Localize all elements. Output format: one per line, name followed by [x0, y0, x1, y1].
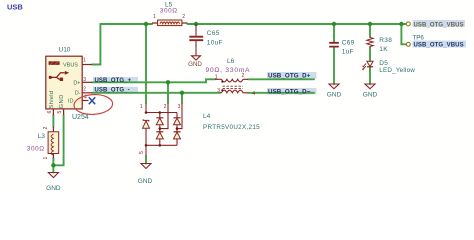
- svg-text:TP6: TP6: [413, 34, 425, 41]
- svg-text:C69: C69: [342, 40, 355, 47]
- junction rail/R38: [368, 22, 372, 26]
- svg-text:U10: U10: [59, 47, 71, 54]
- svg-text:1uF: 1uF: [342, 49, 354, 56]
- svg-text:GND: GND: [59, 94, 65, 108]
- connector U10: [46, 47, 92, 122]
- svg-text:U254: U254: [72, 114, 89, 121]
- svg-text:2: 2: [43, 127, 49, 130]
- LED D5: [362, 60, 415, 74]
- wire R38 drop from rail: [369, 24, 371, 37]
- svg-text:LED_Yellow: LED_Yellow: [379, 67, 415, 74]
- highlight box net USB_OTG_VBUS top: [413, 20, 466, 27]
- svg-text:R38: R38: [379, 37, 392, 44]
- svg-text:300Ω: 300Ω: [160, 8, 178, 15]
- pin names: [49, 62, 81, 108]
- gnd under C69: [327, 84, 342, 98]
- svg-text:2: 2: [182, 14, 185, 20]
- junction rail/TP6: [399, 22, 403, 26]
- svg-text:5: 5: [57, 111, 63, 114]
- bottom rail: [146, 144, 177, 146]
- wire D- line: [92, 92, 220, 94]
- svg-text:3: 3: [178, 104, 181, 110]
- wire L6 out D+: [248, 78, 314, 80]
- svg-text:300Ω: 300Ω: [27, 146, 45, 153]
- gnd under C65: [188, 56, 202, 68]
- wire C65 junction marker segment: [195, 23, 197, 25]
- ferrite bead L5: [152, 1, 188, 25]
- wire R38 to LED: [369, 48, 371, 62]
- wire LED to gnd: [369, 68, 371, 85]
- wire rail L5 to C65 junction and right: [188, 23, 407, 25]
- middle column mids: [159, 125, 161, 132]
- svg-text:VBUS: VBUS: [63, 62, 78, 68]
- wire L6 out D-: [248, 92, 314, 94]
- diode right bottom: [174, 131, 181, 133]
- wire L3 bottom to gnd junction: [52, 158, 54, 173]
- test point TP6: [406, 42, 410, 46]
- annotation ellipse: [74, 94, 114, 116]
- highlight box net USB_OTG_VBUS tp6: [413, 41, 467, 48]
- diode mid top: [156, 117, 163, 119]
- shield hatch rect: [49, 61, 60, 65]
- unconnected flag circle top right: [406, 22, 410, 26]
- svg-text:4: 4: [252, 91, 255, 97]
- svg-text:6: 6: [47, 111, 53, 114]
- svg-text:USB_OTG_+: USB_OTG_+: [95, 78, 132, 84]
- svg-text:2: 2: [242, 73, 245, 79]
- svg-text:D+: D+: [73, 80, 80, 86]
- gnd under TVS: [138, 164, 153, 186]
- junction rail/C69: [332, 22, 336, 26]
- right column mids: [176, 125, 178, 132]
- svg-text:USB: USB: [7, 3, 23, 12]
- junction rail/TVS pin1: [144, 22, 148, 26]
- ferrite bead L3: [27, 127, 59, 160]
- svg-text:3: 3: [83, 77, 86, 83]
- wire shield pin down to L3: [52, 115, 54, 127]
- svg-text:GND: GND: [327, 91, 342, 98]
- highlight box net USB_OTG_D-: [267, 88, 317, 95]
- svg-text:USB_OTG_VBUS: USB_OTG_VBUS: [414, 43, 464, 49]
- pin numbers: [47, 58, 87, 114]
- junction rail/C65: [194, 22, 198, 26]
- svg-text:10uF: 10uF: [207, 39, 223, 46]
- no-connect X on ID pin: [89, 97, 95, 104]
- gnd under L3: [46, 173, 61, 193]
- svg-text:USB_OTG_D−: USB_OTG_D−: [268, 89, 311, 96]
- zener D: [143, 119, 149, 121]
- capacitor C69: [329, 40, 354, 56]
- svg-text:GND: GND: [188, 61, 202, 68]
- junction D+/TVS pin2: [166, 80, 170, 84]
- svg-text:2: 2: [164, 104, 167, 110]
- svg-text:1: 1: [215, 75, 218, 81]
- wire C69 to gnd: [333, 48, 335, 85]
- svg-text:Shield: Shield: [49, 91, 55, 109]
- wire VBUS pin to rail riser: [92, 24, 100, 65]
- svg-text:GND: GND: [363, 91, 378, 98]
- wire TVS pin3 drop: [181, 93, 183, 104]
- svg-text:ID: ID: [68, 99, 74, 105]
- svg-text:1K: 1K: [379, 46, 388, 53]
- svg-text:L3: L3: [38, 133, 46, 140]
- diode right top: [174, 117, 181, 119]
- svg-text:PRTR5V0U2X,215: PRTR5V0U2X,215: [203, 124, 260, 131]
- TVS array L4: [139, 104, 260, 157]
- junction D-/TVS pin3: [180, 91, 184, 95]
- svg-text:1: 1: [153, 14, 156, 20]
- pin stubs: [146, 104, 182, 157]
- diode mid bottom: [156, 131, 163, 133]
- junction L3/gnd: [51, 163, 55, 167]
- svg-text:GND: GND: [138, 178, 153, 185]
- pin stubs: [53, 65, 92, 116]
- svg-text:USB_OTG_-: USB_OTG_-: [95, 88, 130, 94]
- wire top VBUS rail: [100, 23, 152, 25]
- svg-text:2: 2: [83, 87, 86, 93]
- wire D+ line: [92, 79, 215, 82]
- svg-text:L6: L6: [227, 58, 235, 65]
- svg-text:USB_OTG_D+: USB_OTG_D+: [268, 73, 311, 80]
- capacitor C65: [189, 24, 223, 56]
- wire TVS pin2 drop: [167, 82, 169, 103]
- wire U10 gnd pin down and left: [53, 115, 63, 165]
- svg-text:L4: L4: [203, 113, 211, 120]
- svg-text:1: 1: [43, 157, 49, 160]
- svg-text:GND: GND: [46, 185, 61, 192]
- svg-text:1: 1: [140, 104, 143, 110]
- pin numbers: [139, 104, 180, 154]
- svg-text:5: 5: [139, 151, 145, 154]
- svg-text:C65: C65: [207, 30, 220, 37]
- highlight box net USB_OTG_-: [93, 87, 138, 93]
- resistor R38: [367, 37, 392, 53]
- wire TVS pin1 drop: [145, 24, 147, 104]
- svg-text:D-: D-: [75, 90, 81, 96]
- wire TVS gnd stem: [145, 156, 147, 164]
- internal junction dots: [145, 111, 179, 146]
- common mode choke L6: [206, 58, 256, 97]
- usb icon: [49, 73, 65, 80]
- gnd under D5: [363, 84, 378, 98]
- svg-text:1: 1: [83, 58, 86, 64]
- highlight box net USB_OTG_+: [93, 77, 138, 83]
- svg-text:USB_OTG_VBUS: USB_OTG_VBUS: [414, 22, 464, 28]
- wire C69 drop from rail: [333, 24, 335, 42]
- highlight box net USB_OTG_D+: [267, 72, 317, 79]
- svg-text:3: 3: [217, 88, 220, 94]
- wire TP6 branch: [401, 24, 406, 44]
- zener column: [145, 120, 147, 123]
- top rail: [146, 112, 177, 114]
